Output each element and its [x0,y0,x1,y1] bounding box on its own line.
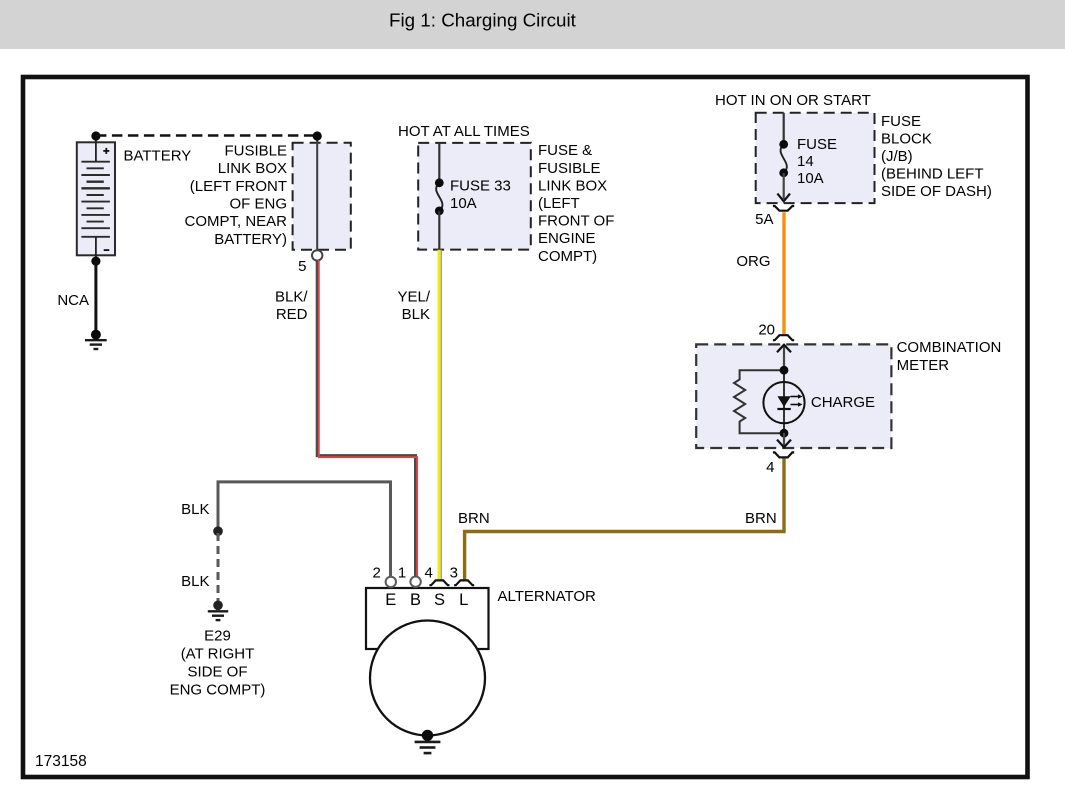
svg-text:RED: RED [276,306,308,323]
svg-text:BLOCK: BLOCK [881,130,932,147]
svg-text:FUSE 33: FUSE 33 [450,177,511,194]
connector bracket below fuse block [773,206,794,211]
svg-text:METER: METER [897,357,950,374]
charge lamp circle [763,382,804,423]
alternator body circle [370,621,485,736]
fuse block J/B [756,113,875,203]
svg-text:CHARGE: CHARGE [811,394,875,411]
svg-text:E29: E29 [204,627,231,644]
svg-text:BLK: BLK [402,306,430,323]
wire inside fuse box [438,143,440,183]
svg-text:10A: 10A [450,195,477,212]
svg-text:(J/B): (J/B) [881,148,913,165]
node BLK junction [213,526,223,536]
alternator connector box [366,588,489,649]
node battery + terminal [91,131,100,140]
wire YEL/BLK fuse 33 to alternator S [438,250,441,581]
svg-text:FUSE &: FUSE & [538,142,592,159]
battery BAT [77,137,115,261]
fusible link box [293,143,351,250]
svg-text:ENGINE: ENGINE [538,230,596,247]
svg-text:14: 14 [797,153,814,170]
fuse 14 element [781,144,787,173]
wire NCA battery to ground [94,261,97,330]
wire BRN combination meter to alternator L [465,459,784,581]
svg-text:BRN: BRN [745,510,777,527]
svg-text:BLK: BLK [181,573,209,590]
svg-text:BATTERY): BATTERY) [214,231,287,248]
svg-text:S: S [434,591,445,609]
svg-text:2: 2 [372,564,380,581]
svg-text:BLK: BLK [181,501,209,518]
pin 5 connector circle [312,250,322,260]
wire BLK/RED fusible link to alternator B [317,260,415,576]
svg-text:LINK BOX: LINK BOX [538,177,607,194]
svg-text:FUSE: FUSE [881,113,921,130]
svg-text:FUSIBLE: FUSIBLE [224,142,287,159]
svg-text:173158: 173158 [35,753,87,770]
svg-text:ENG COMPT): ENG COMPT) [170,681,266,698]
svg-text:HOT AT ALL TIMES: HOT AT ALL TIMES [398,123,530,140]
fuse and fusible link box F33 [418,143,531,250]
svg-text:YEL/: YEL/ [397,288,430,305]
svg-text:ALTERNATOR: ALTERNATOR [498,588,597,605]
svg-text:(BEHIND LEFT: (BEHIND LEFT [881,165,984,182]
pin E circle [386,577,396,587]
pin B circle [410,577,420,587]
svg-text:(AT RIGHT: (AT RIGHT [181,645,255,662]
wire through charge lamp [783,370,785,433]
node meter bottom junction [780,429,789,438]
svg-text:4: 4 [425,564,433,581]
charge lamp LED symbol [777,396,790,407]
wire BLK alternator E to ground E29 [218,482,391,577]
svg-text:1: 1 [398,564,406,581]
svg-text:COMBINATION: COMBINATION [897,339,1002,356]
svg-text:COMPT, NEAR: COMPT, NEAR [184,213,287,230]
wire ORG fuse block to combination meter [782,212,785,334]
wire inside fusible link box [316,140,318,250]
fuse 33 element [436,183,442,211]
title bar [0,0,1065,49]
svg-text:20: 20 [758,322,775,339]
svg-text:BLK/: BLK/ [275,288,308,305]
svg-text:OF ENG: OF ENG [229,196,287,213]
svg-text:BATTERY: BATTERY [124,147,192,164]
arrow down at fuse block exit [777,194,790,202]
wire dashed jumper battery+ to fusible link box [96,134,317,136]
svg-text:SIDE OF DASH): SIDE OF DASH) [881,183,992,200]
ground E29 [208,611,228,620]
connector bracket above combination meter [773,335,794,340]
svg-text:BRN: BRN [458,510,490,527]
ground at alternator [422,730,433,741]
node E29 [213,601,223,611]
pin L bracket [454,580,474,585]
ground at battery [85,340,107,349]
svg-text:ORG: ORG [736,253,770,270]
wire BLK dashed to E29 [217,533,220,603]
node battery - terminal [91,257,100,266]
node fusible link top [313,131,322,140]
combination meter box [696,344,891,448]
svg-text:LINK BOX: LINK BOX [218,160,287,177]
svg-text:(LEFT: (LEFT [538,195,580,212]
svg-text:NCA: NCA [57,292,89,309]
svg-text:SIDE OF: SIDE OF [187,663,247,680]
svg-text:5: 5 [298,258,306,275]
svg-text:L: L [459,591,468,609]
svg-text:4: 4 [766,459,774,476]
wire inside fuse block [783,113,785,144]
LED emission arrows [791,396,800,398]
svg-text:HOT IN ON OR START: HOT IN ON OR START [715,92,871,109]
svg-text:10A: 10A [797,170,824,187]
svg-text:E: E [385,591,396,609]
svg-text:FUSE: FUSE [797,136,837,153]
node meter top junction [780,366,789,375]
svg-text:B: B [410,591,421,609]
svg-text:FRONT OF: FRONT OF [538,213,614,230]
pin S bracket [429,580,449,585]
arrow down out of combination meter [783,433,785,446]
svg-text:FUSIBLE: FUSIBLE [538,160,601,177]
svg-text:Fig 1: Charging Circuit: Fig 1: Charging Circuit [389,10,577,31]
arrow up into combination meter [783,346,785,370]
svg-text:3: 3 [450,564,458,581]
resistor in meter [734,370,784,433]
svg-text:(LEFT FRONT: (LEFT FRONT [190,178,287,195]
svg-text:5A: 5A [755,211,773,228]
connector bracket below combination meter [773,452,794,457]
svg-text:COMPT): COMPT) [538,248,597,265]
